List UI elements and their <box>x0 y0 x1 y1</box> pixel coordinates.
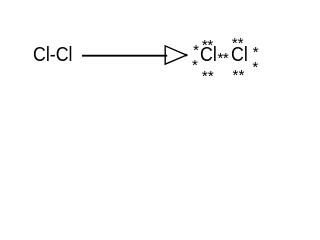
lone pair left of left Cl, upper dot <box>193 42 199 59</box>
lone pair below right Cl <box>233 67 239 84</box>
lone pair above right Cl <box>232 35 238 52</box>
arrow shaft <box>82 55 167 57</box>
lone pair below left Cl <box>202 68 208 85</box>
lone pair right of right Cl, upper dot <box>253 44 259 61</box>
lone pair above left Cl <box>202 37 208 54</box>
reaction arrow <box>0 0 295 85</box>
lone pair right of right Cl, lower dot <box>252 59 258 76</box>
arrowhead (open triangle) <box>165 46 186 64</box>
atom Cl right <box>231 44 248 67</box>
arrowhead apex dot <box>185 54 187 56</box>
bonding pair between Cl atoms <box>218 50 224 67</box>
reactant Cl-Cl <box>33 44 72 67</box>
atom Cl left <box>200 44 217 67</box>
lone pair left of left Cl, lower dot <box>192 57 198 74</box>
